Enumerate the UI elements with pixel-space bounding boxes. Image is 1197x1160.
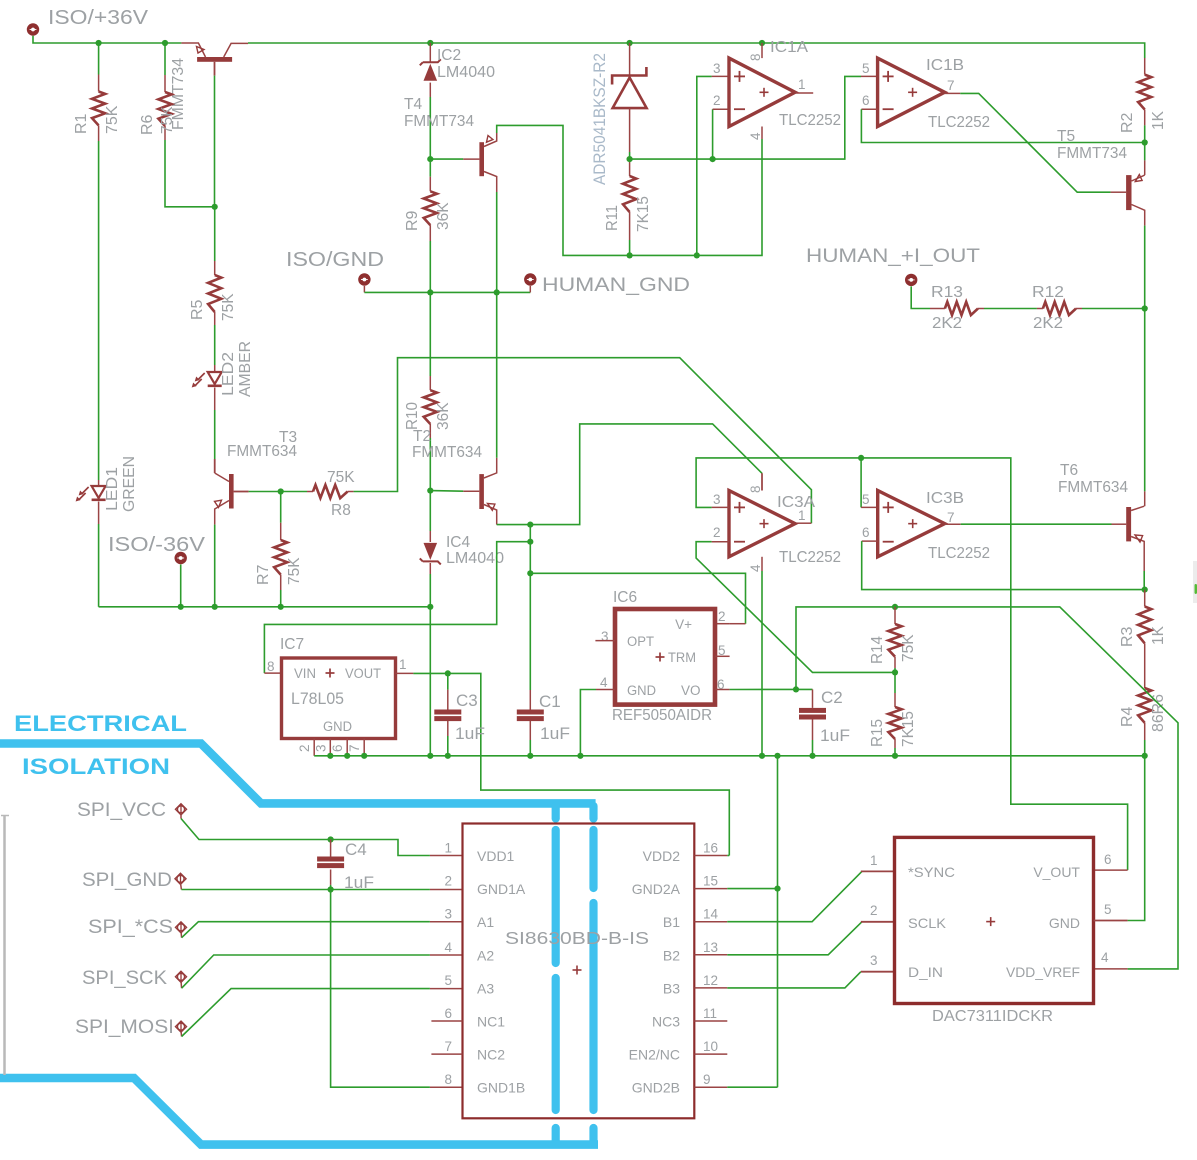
transistor T3 NPN FMMT634	[215, 459, 249, 525]
svg-text:R7: R7	[255, 564, 272, 585]
svg-text:5: 5	[444, 973, 452, 988]
svg-text:NC2: NC2	[477, 1047, 505, 1063]
junction at ADR5041 top	[627, 40, 633, 46]
svg-text:2: 2	[297, 744, 312, 752]
junction R14/R15 divider tap	[892, 669, 898, 675]
svg-text:4: 4	[748, 132, 763, 140]
svg-text:SPI_MOSI: SPI_MOSI	[75, 1017, 174, 1038]
wire negative rail	[99, 606, 431, 608]
svg-text:R9: R9	[404, 210, 421, 231]
svg-text:6: 6	[444, 1006, 452, 1021]
svg-text:FMMT734: FMMT734	[404, 113, 474, 130]
svg-text:6: 6	[862, 525, 870, 540]
wire R8 to IC3A output (via riser and diagonal)	[354, 358, 812, 524]
pin stub IC3A output pin1	[796, 522, 812, 524]
wire T1 base down	[214, 76, 216, 207]
wire R13 to R12	[984, 308, 1037, 310]
wire node to R5	[214, 207, 216, 261]
junction C4 bottom	[328, 886, 334, 892]
pin stub DAC pin5 GND	[1094, 920, 1128, 922]
svg-text:VDD1: VDD1	[477, 848, 515, 864]
junction GND2 column	[774, 886, 780, 892]
left edge artifact	[3, 816, 6, 1075]
svg-text:3: 3	[870, 953, 878, 968]
svg-text:SPI_VCC: SPI_VCC	[77, 800, 166, 821]
svg-text:GND2A: GND2A	[632, 881, 681, 897]
resistor R2 1K	[1144, 58, 1146, 75]
svg-text:3: 3	[713, 492, 721, 507]
resistor R1 75K	[98, 43, 100, 75]
capacitor C2 1uF	[812, 689, 814, 708]
svg-text:V_OUT: V_OUT	[1033, 864, 1080, 880]
IC U1 SI8630BD-B-IS	[463, 824, 695, 1119]
svg-text:IC1B: IC1B	[926, 57, 964, 74]
junction IC1A pin2 branch	[710, 156, 716, 162]
junction HUMAN_GND T4/T2 collectors	[494, 289, 500, 295]
svg-text:AMBER: AMBER	[237, 341, 254, 397]
svg-text:12: 12	[703, 973, 718, 988]
svg-text:VOUT: VOUT	[345, 666, 381, 681]
junction at R1 top	[96, 40, 102, 46]
resistor R14 75K	[894, 607, 896, 624]
svg-text:R3: R3	[1119, 626, 1136, 647]
junction at R6 top	[162, 40, 168, 46]
op-amp IC1A TLC2252	[729, 58, 795, 126]
junction HUMAN_GND R9/R10	[427, 289, 433, 295]
svg-text:GND1A: GND1A	[477, 881, 526, 897]
svg-text:NC1: NC1	[477, 1014, 505, 1030]
capacitor C4 1uF	[330, 840, 332, 859]
svg-text:IC7: IC7	[280, 636, 304, 653]
svg-text:R13: R13	[931, 284, 963, 301]
transistor T6 NPN FMMT634	[1126, 506, 1144, 557]
svg-text:1K: 1K	[1150, 625, 1167, 645]
svg-text:8: 8	[444, 1072, 452, 1087]
svg-text:TRM: TRM	[668, 650, 696, 665]
junction lower rail	[577, 753, 583, 759]
junction lower rail	[774, 753, 780, 759]
svg-text:IC6: IC6	[613, 589, 637, 606]
wire SPI_GND to GND1A	[181, 889, 430, 891]
svg-text:ISO/+36V: ISO/+36V	[48, 7, 149, 29]
pin stub DAC pin4	[1094, 968, 1128, 970]
svg-text:B1: B1	[663, 914, 680, 930]
wire T2 collector up	[496, 292, 498, 457]
resistor R12 2K2	[1037, 308, 1043, 310]
wire IC1B pin6 feedback	[861, 108, 877, 110]
svg-text:36K: 36K	[435, 402, 452, 430]
wire IC3A pin4 to rail	[761, 557, 763, 571]
svg-text:T4: T4	[404, 96, 422, 113]
svg-text:9: 9	[703, 1072, 711, 1087]
junction T1 base / R6 / R5	[212, 204, 218, 210]
svg-text:R14: R14	[869, 636, 886, 664]
zener IC2 LM4040	[429, 43, 431, 63]
wire T5 collector	[1144, 226, 1146, 309]
svg-text:14: 14	[703, 907, 719, 922]
junction rail T3/LED path	[212, 604, 218, 610]
svg-text:B2: B2	[663, 947, 680, 963]
wire GND2 column to rail	[777, 756, 779, 1087]
wire B2 pin13 to DAC SCLK	[727, 922, 862, 955]
svg-text:ISOLATION: ISOLATION	[22, 754, 170, 779]
svg-text:1: 1	[798, 508, 806, 523]
svg-text:C4: C4	[345, 840, 367, 859]
svg-text:ISO/-36V: ISO/-36V	[108, 534, 206, 556]
junction VO / C2 / R14 riser	[793, 686, 799, 692]
wire T2 emitter net to IC3A pin8	[497, 424, 762, 525]
zener D ADR5041BKSZ-R2	[629, 43, 631, 76]
IC IC7 L78L05	[282, 658, 396, 739]
svg-text:R1: R1	[73, 113, 90, 134]
junction rail ISO/-36V	[178, 604, 184, 610]
capacitor C3 1uF	[447, 673, 449, 689]
svg-text:4: 4	[748, 564, 763, 572]
svg-text:SCLK: SCLK	[908, 915, 947, 931]
svg-text:13: 13	[703, 940, 718, 955]
wire GND to GND1B	[331, 890, 430, 1088]
resistor R10 36K	[429, 292, 431, 376]
junction T2 base	[427, 488, 433, 494]
svg-text:5: 5	[1104, 902, 1112, 917]
wire VREF line to DAC VDD_VREF	[895, 607, 1178, 969]
svg-text:2: 2	[870, 903, 878, 918]
wire IC6 VO pin6	[715, 689, 730, 691]
svg-text:5: 5	[862, 492, 870, 507]
wire SPI_SCK to A2	[182, 955, 430, 988]
junction T6 emitter / R3 / IC3B feedback	[1142, 587, 1148, 593]
svg-text:TLC2252: TLC2252	[928, 114, 990, 131]
junction R14 top	[892, 604, 898, 610]
pin HUMAN_GND	[524, 273, 536, 285]
svg-text:3: 3	[713, 61, 721, 76]
wire SPI_*CS to A1	[182, 922, 430, 938]
svg-text:FMMT634: FMMT634	[412, 444, 482, 461]
junction R12 / T5 collector / T6 collector	[1142, 305, 1148, 311]
svg-text:VDD2: VDD2	[643, 848, 681, 864]
svg-text:SI8630BD-B-IS: SI8630BD-B-IS	[505, 928, 649, 948]
right edge artifact	[1193, 561, 1197, 603]
zener IC4 LM4040	[429, 491, 431, 531]
svg-text:IC3B: IC3B	[926, 490, 964, 507]
op-amp IC1B TLC2252	[878, 58, 945, 126]
pin stub IC6 OPT pin3	[595, 640, 615, 642]
junction lower rail	[809, 753, 815, 759]
junction rail IC4 column	[427, 604, 433, 610]
svg-text:R4: R4	[1119, 706, 1136, 727]
svg-text:15: 15	[703, 874, 718, 889]
wire VO to C2	[796, 688, 813, 690]
svg-text:FMMT734: FMMT734	[1057, 145, 1127, 162]
junction rail R7	[278, 604, 284, 610]
resistor R6 75K	[164, 43, 166, 75]
wire R14 riser	[796, 607, 895, 690]
wire R6 to T1 base node	[165, 140, 215, 207]
svg-text:IC3A: IC3A	[777, 494, 815, 511]
junction VIN branch	[527, 539, 533, 545]
svg-text:6: 6	[862, 93, 870, 108]
svg-text:75K: 75K	[104, 105, 121, 134]
junction lower rail	[1142, 753, 1148, 759]
svg-text:REF5050AIDR: REF5050AIDR	[612, 707, 712, 724]
svg-text:GND: GND	[323, 719, 352, 734]
wire T4 emitter loop to HUMAN minus rail	[497, 125, 762, 255]
svg-text:VDD_VREF: VDD_VREF	[1006, 964, 1080, 980]
svg-text:TLC2252: TLC2252	[779, 112, 841, 129]
resistor R9 36K	[429, 159, 431, 177]
junction lower rail	[527, 753, 533, 759]
wire IC1A pin3 to rail2	[712, 75, 729, 77]
junction T2 emitter / C1 column	[527, 522, 533, 528]
svg-text:1: 1	[870, 853, 878, 868]
wire T3 emitter to rail	[214, 525, 216, 607]
wire ISO/+36V rail right	[248, 43, 1145, 58]
resistor R13 2K2	[930, 308, 945, 310]
wire IC4 column to lower rail	[429, 607, 431, 756]
svg-text:DAC7311IDCKR: DAC7311IDCKR	[932, 1008, 1053, 1025]
wire SPI_MOSI to A3	[182, 989, 430, 1037]
pin stubs IC7 bottom 2 3 6 7	[313, 739, 315, 756]
svg-text:GND1B: GND1B	[477, 1080, 525, 1096]
junction rail2 IC1A pin3	[694, 252, 700, 258]
wire IC3B pin7 to T6 base	[945, 523, 961, 525]
svg-text:T6: T6	[1060, 462, 1078, 479]
svg-text:C1: C1	[539, 692, 561, 711]
wire T3 base to R7/R8 node	[249, 491, 307, 493]
svg-text:7: 7	[444, 1039, 452, 1054]
svg-text:TLC2252: TLC2252	[779, 549, 841, 566]
svg-text:86R6: 86R6	[1150, 694, 1167, 732]
wire HUMAN_+I_OUT to R13	[911, 286, 930, 308]
svg-text:LM4040: LM4040	[437, 64, 495, 81]
svg-text:1K: 1K	[1150, 110, 1167, 130]
wire T2 base	[430, 490, 463, 493]
svg-text:NC3: NC3	[652, 1014, 680, 1030]
svg-text:7: 7	[947, 78, 955, 93]
wire SPI_VCC to C4/VDD1	[181, 819, 430, 856]
svg-text:A3: A3	[477, 980, 494, 996]
svg-text:75K: 75K	[159, 106, 176, 134]
wire IC3B pin6 feedback to R3	[862, 540, 878, 542]
svg-text:L78L05: L78L05	[291, 689, 344, 708]
junction R2 / T5 emitter / feedback	[1142, 139, 1148, 145]
svg-text:11: 11	[703, 1006, 717, 1021]
svg-text:SPI_SCK: SPI_SCK	[82, 968, 167, 989]
svg-text:6: 6	[330, 744, 345, 752]
svg-text:HUMAN_+I_OUT: HUMAN_+I_OUT	[806, 246, 980, 267]
svg-text:3: 3	[601, 629, 609, 644]
svg-text:*SYNC: *SYNC	[908, 864, 955, 880]
svg-text:R12: R12	[1032, 284, 1064, 301]
pin ISO/+36V	[27, 23, 39, 35]
svg-text:4: 4	[600, 675, 608, 690]
wire IC7 VOUT pin1	[396, 672, 414, 674]
svg-text:B3: B3	[663, 980, 680, 996]
junction lower rail	[344, 753, 350, 759]
svg-text:8: 8	[748, 53, 763, 61]
svg-text:2K2: 2K2	[1033, 315, 1063, 332]
svg-text:2K2: 2K2	[932, 315, 962, 332]
svg-text:16: 16	[703, 841, 718, 856]
wire T6 emitter to R3 junction	[1143, 557, 1145, 571]
svg-text:2: 2	[444, 874, 452, 889]
wire IC3B pin5	[860, 458, 862, 508]
junction lower rail	[445, 753, 451, 759]
svg-text:75K: 75K	[286, 557, 303, 585]
wire lower 0V rail	[314, 755, 1144, 757]
wire ISO/+36V rail left	[33, 36, 181, 43]
svg-text:2: 2	[713, 93, 721, 108]
isolation barrier upper line	[0, 744, 596, 804]
resistor R5 75K	[214, 261, 216, 275]
svg-text:GND: GND	[1049, 915, 1080, 931]
wire IC3A pin3 to DAC V_OUT net	[712, 506, 729, 508]
wire IC1B pin7 to T5 base	[945, 92, 961, 94]
wire HUMAN_GND link	[363, 286, 365, 293]
wire VOUT to SI8630 VDD2	[448, 673, 730, 855]
IC IC6 REF5050AIDR	[615, 609, 715, 705]
svg-text:D_IN: D_IN	[908, 964, 943, 980]
svg-text:1: 1	[798, 77, 806, 92]
svg-text:3: 3	[313, 744, 328, 752]
junction at IC2 top	[427, 40, 433, 46]
svg-text:SPI_*CS: SPI_*CS	[88, 917, 173, 938]
wire R5 to LED2	[214, 325, 216, 365]
svg-text:ISO/GND: ISO/GND	[286, 249, 384, 271]
wire T4 base	[430, 158, 463, 160]
resistor R8 75K	[307, 491, 313, 493]
LED LED1 GREEN	[98, 480, 100, 486]
svg-text:R8: R8	[331, 502, 351, 519]
svg-text:A1: A1	[477, 914, 494, 930]
svg-text:TLC2252: TLC2252	[928, 545, 990, 562]
svg-text:HUMAN_GND: HUMAN_GND	[542, 275, 690, 296]
svg-text:1uF: 1uF	[455, 724, 485, 743]
svg-text:75K: 75K	[900, 634, 917, 662]
isolation barrier dashes	[552, 806, 560, 1142]
svg-text:FMMT634: FMMT634	[227, 443, 297, 460]
LED LED2 AMBER	[214, 365, 216, 372]
pin stub DAC pin6 V_OUT	[1094, 869, 1128, 871]
svg-text:75K: 75K	[327, 469, 355, 486]
svg-text:IC4: IC4	[446, 534, 471, 551]
svg-text:SPI_GND: SPI_GND	[82, 870, 172, 891]
svg-text:LED1: LED1	[104, 467, 121, 511]
transistor T2 NPN FMMT634	[479, 458, 496, 525]
svg-text:R2: R2	[1119, 112, 1136, 133]
svg-text:VIN: VIN	[294, 666, 316, 681]
svg-text:R5: R5	[189, 299, 206, 320]
wire IC3A pin2 to R14/R15 tap	[712, 541, 729, 543]
wire LED1 to rail	[98, 524, 100, 607]
svg-text:7: 7	[347, 744, 362, 752]
resistor R7 75K	[280, 492, 282, 523]
svg-text:3: 3	[444, 907, 452, 922]
svg-text:GREEN: GREEN	[121, 456, 138, 512]
junction ADR5041 / R11 / IC1 input net	[627, 156, 633, 162]
svg-text:R6: R6	[139, 114, 156, 135]
pin stub IC3A pin8	[761, 473, 763, 490]
pin stub IC1A pin4	[761, 127, 763, 140]
resistor R15 7K15	[894, 672, 896, 693]
wire IC6 GND pin4	[596, 689, 615, 691]
junction lower rail	[427, 753, 433, 759]
wire to IC6 V+ pin2	[530, 573, 745, 623]
resistor R11 7K15	[629, 159, 631, 176]
svg-text:4: 4	[444, 940, 452, 955]
svg-text:75K: 75K	[220, 293, 237, 321]
svg-text:GND2B: GND2B	[632, 1080, 680, 1096]
wire R1 to LED1	[98, 141, 100, 480]
isolation barrier lower line	[0, 1078, 598, 1145]
svg-text:36K: 36K	[435, 202, 452, 230]
wire ISO/-36V to rail	[180, 565, 182, 607]
svg-text:OPT: OPT	[627, 634, 654, 649]
transistor T1 PNP FMMT734 (series pass, rotated)	[181, 43, 248, 76]
svg-text:VO: VO	[681, 683, 701, 698]
wire IC2 to T4 base junction	[429, 97, 431, 159]
resistor R4 86R6	[1144, 643, 1146, 688]
svg-text:1: 1	[444, 841, 452, 856]
wire GND2A pin15	[727, 888, 777, 890]
junction T3 base / R7 / R8	[278, 488, 284, 494]
svg-text:A2: A2	[477, 947, 494, 963]
svg-text:EN2/NC: EN2/NC	[629, 1047, 680, 1063]
junction lower rail	[759, 753, 765, 759]
svg-text:7K15: 7K15	[900, 711, 917, 747]
wire T6 collector up	[1144, 309, 1146, 492]
svg-text:T2: T2	[413, 428, 431, 445]
wire DAC GND to rail	[1128, 756, 1145, 921]
svg-text:R10: R10	[404, 402, 421, 430]
svg-text:R15: R15	[869, 719, 886, 747]
junction IC2 / T4 base / R9	[427, 156, 433, 162]
svg-text:8: 8	[267, 659, 275, 674]
wire VDD2 pin16 (stub joint)	[727, 855, 729, 857]
svg-text:4: 4	[1101, 950, 1109, 965]
junction lower rail	[361, 753, 367, 759]
svg-text:LED2: LED2	[220, 352, 237, 396]
svg-text:5: 5	[862, 61, 870, 76]
svg-text:ELECTRICAL: ELECTRICAL	[14, 711, 187, 736]
wire B1 pin14 to DAC SYNC	[727, 871, 862, 921]
op-amp IC3B TLC2252	[878, 491, 945, 557]
svg-text:1: 1	[399, 657, 407, 672]
svg-text:10: 10	[703, 1039, 718, 1054]
svg-text:ADR5041BKSZ-R2: ADR5041BKSZ-R2	[590, 53, 609, 185]
svg-text:2: 2	[713, 525, 721, 540]
svg-text:C2: C2	[821, 688, 843, 707]
wire B3 pin12 to DAC D_IN	[727, 972, 861, 988]
op-amp IC3A TLC2252	[729, 491, 795, 557]
svg-text:IC2: IC2	[437, 47, 461, 64]
junction REF V+ branch	[527, 570, 533, 576]
wire ADR node to IC1B pin5	[630, 76, 861, 159]
svg-text:7: 7	[947, 510, 955, 525]
junction lower rail	[327, 753, 333, 759]
capacitor C1 1uF	[529, 690, 531, 710]
svg-text:1uF: 1uF	[540, 724, 570, 743]
junction IC3B pin5 branch	[858, 455, 864, 461]
svg-text:6: 6	[1104, 852, 1112, 867]
svg-text:1uF: 1uF	[820, 726, 850, 745]
wire +5V column down	[529, 525, 531, 690]
svg-text:IC1A: IC1A	[770, 39, 808, 56]
svg-text:V+: V+	[675, 617, 692, 632]
junction C3 top	[445, 670, 451, 676]
svg-text:2: 2	[718, 609, 726, 624]
IC U2 DAC7311IDCKR	[895, 837, 1094, 1003]
